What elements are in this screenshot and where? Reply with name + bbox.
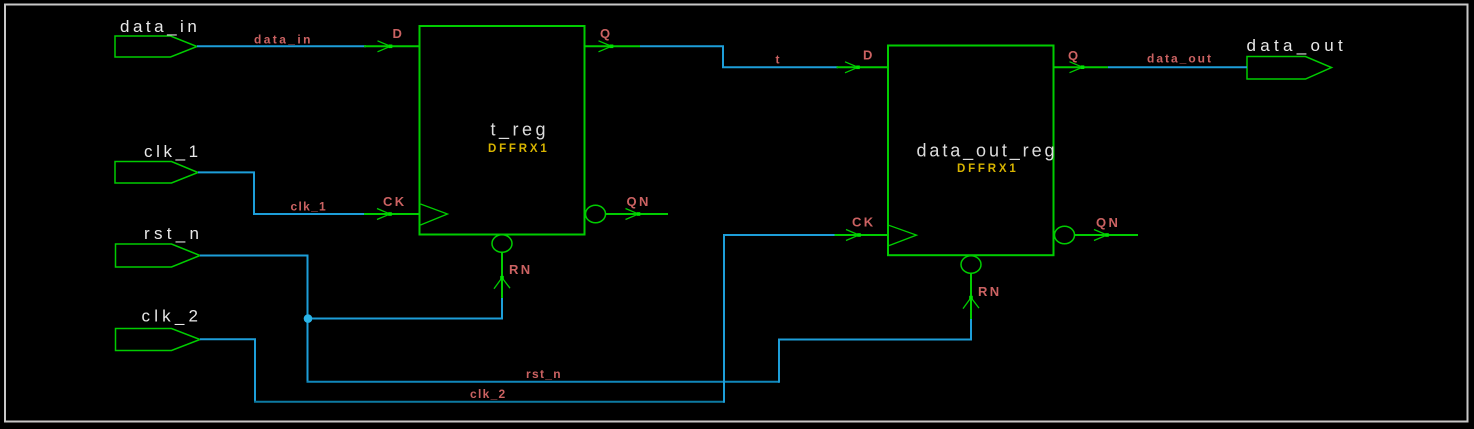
pin label Q data_out_reg: [1068, 48, 1081, 63]
svg-text:clk_2: clk_2: [470, 387, 507, 401]
cell label DFFRX1 (data_out_reg): [957, 163, 1019, 175]
svg-text:data_out_reg: data_out_reg: [917, 141, 1058, 162]
svg-text:DFFRX1: DFFRX1: [488, 143, 550, 155]
pin label CK t_reg: [383, 194, 407, 209]
svg-text:QN: QN: [1096, 215, 1120, 230]
net label t: [776, 53, 781, 67]
port label data_out: [1247, 36, 1348, 55]
net label clk_2: [470, 387, 507, 401]
svg-text:CK: CK: [852, 215, 876, 230]
pin label QN t_reg: [627, 194, 651, 209]
svg-text:rst_n: rst_n: [526, 367, 562, 381]
wire net clk_2 from port down: [200, 339, 255, 401]
pin D arrow t_reg: [378, 41, 393, 52]
pin Q stub t_reg: [585, 45, 641, 47]
pin CK stub t_reg: [364, 213, 420, 215]
bubble RN t_reg: [492, 235, 512, 253]
svg-text:data_in: data_in: [254, 33, 313, 47]
pin QN stub data_out_reg: [1075, 234, 1139, 236]
input port clk_2: [116, 329, 201, 351]
pin D stub data_out_reg: [837, 66, 889, 68]
svg-text:D: D: [863, 48, 875, 63]
pin D stub t_reg: [364, 45, 420, 47]
net label data_out: [1147, 52, 1213, 66]
input port rst_n: [116, 244, 201, 267]
pin label D data_out_reg: [863, 48, 875, 63]
svg-text:CK: CK: [383, 194, 407, 209]
clock wedge CK t_reg: [421, 204, 448, 225]
cell label DFFRX1 (t_reg): [488, 143, 550, 155]
instance label t_reg: [491, 120, 550, 141]
svg-text:data_in: data_in: [120, 17, 200, 36]
pin RN arrow t_reg: [494, 276, 510, 289]
pin label D t_reg: [393, 26, 405, 41]
pin RN arrow data_out_reg: [963, 296, 979, 309]
input port data_in: [115, 36, 197, 57]
svg-text:Q: Q: [1068, 48, 1081, 63]
bubble QN t_reg: [586, 205, 606, 223]
junction rst_n: [304, 314, 313, 323]
svg-text:t: t: [776, 53, 781, 67]
svg-text:RN: RN: [509, 262, 533, 277]
svg-text:t_reg: t_reg: [491, 120, 550, 141]
wire net clk_2 long horizontal: [254, 401, 724, 403]
clock wedge CK data_out_reg: [889, 225, 917, 245]
pin Q arrow data_out_reg: [1070, 62, 1085, 73]
port label clk_2: [142, 307, 203, 326]
instance label data_out_reg: [917, 141, 1058, 162]
svg-text:Q: Q: [600, 26, 613, 41]
svg-text:data_out: data_out: [1247, 36, 1348, 55]
pin label CK data_out_reg: [852, 215, 876, 230]
bubble RN data_out_reg: [961, 256, 981, 274]
pin CK stub data_out_reg: [835, 234, 889, 236]
pin label QN data_out_reg: [1096, 215, 1120, 230]
port label rst_n: [144, 224, 203, 243]
svg-text:RN: RN: [978, 284, 1002, 299]
input port clk_1: [115, 162, 198, 184]
pin RN stub t_reg: [501, 252, 503, 298]
net label data_in: [254, 33, 313, 47]
pin QN arrow t_reg: [626, 209, 641, 220]
flip-flop data_out_reg box: [888, 46, 1054, 256]
svg-text:data_out: data_out: [1147, 52, 1213, 66]
svg-text:clk_1: clk_1: [291, 200, 328, 214]
net label rst_n: [526, 367, 562, 381]
wire net rst_n rise to data_out_reg RN: [779, 318, 971, 383]
wire net rst_n branch to t_reg RN: [308, 297, 503, 319]
pin QN stub t_reg: [606, 213, 669, 215]
pin RN stub data_out_reg: [970, 273, 972, 319]
pin QN arrow data_out_reg: [1094, 230, 1109, 241]
port label clk_1: [144, 142, 202, 161]
pin label RN data_out_reg: [978, 284, 1002, 299]
pin label RN t_reg: [509, 262, 533, 277]
svg-text:D: D: [393, 26, 405, 41]
wire net data_out: [1108, 66, 1247, 68]
wire net clk_2 rise to data_out_reg CK: [724, 235, 836, 403]
net label clk_1: [291, 200, 328, 214]
output port data_out: [1247, 57, 1332, 80]
pin CK arrow t_reg: [377, 209, 392, 220]
port label data_in: [120, 17, 200, 36]
pin CK arrow data_out_reg: [846, 230, 861, 241]
pin label Q t_reg: [600, 26, 613, 41]
pin Q arrow t_reg: [599, 41, 614, 52]
bubble QN data_out_reg: [1055, 226, 1075, 244]
svg-text:rst_n: rst_n: [144, 224, 203, 243]
wire net rst_n long horizontal: [307, 381, 780, 383]
wire net data_in: [197, 45, 366, 47]
wire net t: [640, 46, 838, 67]
svg-text:clk_2: clk_2: [142, 307, 203, 326]
pin Q stub data_out_reg: [1054, 66, 1109, 68]
svg-text:clk_1: clk_1: [144, 142, 202, 161]
pin D arrow data_out_reg: [845, 62, 860, 73]
wire net rst_n from port down: [200, 256, 308, 382]
svg-text:QN: QN: [627, 194, 651, 209]
flip-flop t_reg box: [420, 26, 585, 235]
svg-text:DFFRX1: DFFRX1: [957, 163, 1019, 175]
wire net clk_1: [198, 172, 366, 214]
